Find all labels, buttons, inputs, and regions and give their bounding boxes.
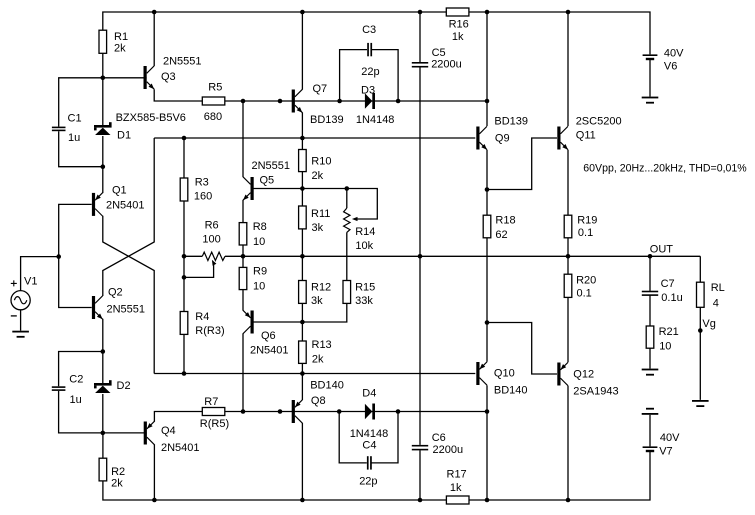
resistor R17 — [446, 496, 469, 504]
svg-text:BD140: BD140 — [310, 379, 344, 391]
junction dots VAS base line — [241, 99, 246, 104]
resistor R7 — [202, 408, 225, 416]
svg-text:3k: 3k — [311, 295, 323, 307]
wire R7 to Q8 base line — [225, 411, 487, 413]
wire R10 to R11 node — [301, 172, 303, 206]
svg-text:Q12: Q12 — [573, 369, 594, 381]
junction dots out rail — [182, 254, 187, 259]
svg-text:Q9: Q9 — [495, 132, 510, 144]
wire bias rail y138 — [154, 137, 475, 139]
wire R18 to Q10 emitter — [486, 238, 488, 362]
capacitor C2 — [52, 386, 66, 388]
junction dot Q3 base node — [101, 76, 106, 81]
wire Q5 base — [253, 188, 302, 190]
wire bottom rail — [103, 451, 650, 500]
resistor R6 potentiometer — [202, 252, 225, 260]
transistor Q5 — [251, 177, 254, 200]
svg-text:2k: 2k — [312, 354, 324, 366]
svg-text:Q10: Q10 — [494, 368, 515, 380]
svg-text:V1: V1 — [24, 276, 37, 288]
wire Q1 collector cross to right — [103, 216, 154, 374]
svg-text:10k: 10k — [355, 240, 373, 252]
svg-text:2k: 2k — [312, 170, 324, 182]
wire R14 wiper bracket — [347, 189, 378, 220]
transistor Q12 — [557, 363, 560, 386]
zener diode D1 — [94, 125, 112, 128]
svg-text:2N5551: 2N5551 — [252, 160, 291, 172]
wire R11 to out rail — [301, 229, 303, 281]
svg-text:2N5551: 2N5551 — [107, 304, 146, 316]
wire Q9 emitter to Q11 base — [487, 138, 557, 190]
wire Q4 collector to bottom rail — [153, 444, 155, 500]
wire Q11 emitter to R19 — [567, 150, 569, 215]
svg-text:R(R5): R(R5) — [200, 418, 229, 430]
svg-text:R5: R5 — [208, 82, 222, 94]
wire R8 R9 junction — [242, 245, 244, 267]
resistor R12 — [299, 281, 307, 304]
svg-text:D4: D4 — [362, 388, 376, 400]
junction dot D2 node — [101, 349, 106, 354]
wire Q4 base node to R2 — [103, 433, 147, 458]
svg-text:R17: R17 — [447, 469, 467, 481]
wire C1 branch top — [59, 78, 103, 127]
wire R20 to Q12 emitter — [567, 297, 569, 362]
svg-text:BD140: BD140 — [494, 385, 528, 397]
svg-text:22p: 22p — [359, 476, 377, 488]
resistor R20 — [564, 274, 572, 297]
svg-text:2N5551: 2N5551 — [163, 55, 202, 67]
svg-text:Q1: Q1 — [112, 185, 127, 197]
transistor Q7 — [292, 90, 295, 113]
svg-text:R20: R20 — [576, 274, 596, 286]
wire R3 R4 column — [183, 138, 185, 374]
svg-text:40V: 40V — [660, 432, 680, 444]
svg-text:R9: R9 — [253, 266, 267, 278]
svg-text:2N5401: 2N5401 — [106, 200, 145, 212]
svg-text:R(R3): R(R3) — [195, 325, 224, 337]
svg-text:22p: 22p — [361, 66, 379, 78]
svg-text:R11: R11 — [311, 208, 330, 220]
wire R12 to R13 node — [301, 303, 303, 341]
junction dot R6 wiper node — [182, 275, 187, 280]
svg-text:C7: C7 — [661, 278, 675, 290]
wire Q2 collector cross from right — [103, 138, 154, 296]
wire output rail H5 y373.5 — [154, 373, 475, 375]
wire Q6 base — [253, 321, 302, 323]
svg-text:2200u: 2200u — [431, 59, 462, 71]
transistor Q8 — [292, 400, 295, 423]
svg-text:60Vpp, 20Hz...20kHz, THD=0,01%: 60Vpp, 20Hz...20kHz, THD=0,01% — [583, 162, 747, 174]
svg-text:R7: R7 — [204, 396, 218, 408]
svg-text:C4: C4 — [362, 440, 376, 452]
svg-text:R18: R18 — [495, 214, 515, 226]
transistor Q3 — [144, 66, 147, 89]
svg-text:R16: R16 — [449, 18, 469, 30]
svg-text:2SC5200: 2SC5200 — [576, 116, 622, 128]
resistor R9 — [239, 267, 247, 289]
svg-text:R3: R3 — [195, 176, 209, 188]
transistor Q11 — [557, 127, 560, 150]
wire C4 bracket — [339, 412, 398, 463]
svg-text:V6: V6 — [664, 60, 677, 72]
svg-text:C3: C3 — [362, 24, 376, 36]
svg-text:0.1: 0.1 — [577, 287, 592, 299]
capacitor C6 — [412, 445, 428, 447]
svg-text:2200u: 2200u — [433, 444, 464, 456]
svg-text:1N4148: 1N4148 — [350, 428, 389, 440]
wire Q11 collector to top rail — [567, 12, 569, 126]
svg-text:0.1u: 0.1u — [661, 292, 682, 304]
svg-text:1N4148: 1N4148 — [356, 114, 395, 126]
resistor R2 — [99, 458, 107, 481]
wire Q10 collector to bottom rail — [486, 385, 488, 500]
battery V6 40V — [643, 54, 658, 56]
svg-text:160: 160 — [194, 191, 212, 203]
svg-text:4: 4 — [713, 297, 719, 309]
svg-text:100: 100 — [202, 234, 220, 246]
junction dot R12 node — [300, 320, 305, 325]
wire V1 branch — [21, 257, 59, 291]
svg-text:D2: D2 — [117, 380, 131, 392]
svg-text:R6: R6 — [205, 220, 219, 232]
svg-text:40V: 40V — [664, 48, 684, 60]
wire R19 to out rail — [567, 238, 569, 256]
svg-text:R12: R12 — [311, 281, 331, 293]
svg-text:V7: V7 — [659, 446, 672, 458]
wire C2 branch — [59, 352, 103, 433]
wire Q9 collector — [486, 12, 488, 126]
resistor R19 — [564, 215, 572, 238]
junction dots Q8 base line — [241, 409, 246, 414]
svg-text:1k: 1k — [450, 482, 462, 494]
transistor Q4 — [144, 422, 147, 445]
source V1 sine generator — [11, 291, 30, 310]
wire Q6 collector to R7 line — [242, 333, 244, 411]
transistor Q2 — [92, 296, 95, 319]
wire R5 to VAS base line — [225, 100, 487, 102]
wire Q1 base to Q2 base via V1 node — [59, 204, 92, 307]
diode D4 — [365, 404, 372, 419]
svg-text:62: 62 — [495, 229, 507, 241]
resistor R13 — [299, 341, 307, 363]
wire R9 to Q6 emitter — [242, 290, 244, 311]
capacitor C3 — [367, 43, 369, 56]
svg-text:33k: 33k — [355, 295, 373, 307]
ground RL Vg — [692, 400, 709, 402]
transistor Q6 — [251, 311, 254, 334]
wire V1 to ground — [20, 310, 22, 331]
svg-text:10: 10 — [253, 280, 265, 292]
wire Q8 emitter — [301, 374, 303, 401]
svg-text:C2: C2 — [69, 373, 83, 385]
svg-text:2N5401: 2N5401 — [250, 345, 289, 357]
svg-text:R14: R14 — [355, 226, 375, 238]
wire R1 bottom to Q3 base node — [103, 53, 147, 78]
resistor R18 — [483, 215, 491, 238]
transistor Q10 — [476, 362, 479, 385]
wire Q3 collector to top rail — [153, 12, 155, 66]
wire Q8 collector to bottom rail — [301, 423, 303, 500]
ground V1 — [12, 331, 29, 333]
junction dot Q4 base node — [101, 431, 106, 436]
wire Q1 emitter — [102, 167, 104, 193]
diode D3 — [365, 93, 372, 108]
svg-text:C1: C1 — [68, 113, 82, 125]
svg-text:Q5: Q5 — [260, 174, 275, 186]
capacitor C7 — [642, 291, 658, 293]
svg-text:BD139: BD139 — [310, 114, 344, 126]
svg-text:C5: C5 — [432, 47, 446, 59]
svg-text:BD139: BD139 — [494, 115, 528, 127]
junction dot V1 node — [56, 254, 61, 259]
svg-text:680: 680 — [204, 111, 222, 123]
svg-text:OUT: OUT — [650, 243, 674, 255]
svg-text:R13: R13 — [312, 339, 332, 351]
svg-text:C6: C6 — [432, 432, 446, 444]
svg-text:2k: 2k — [111, 478, 123, 490]
svg-text:D3: D3 — [361, 85, 375, 97]
svg-text:Vg: Vg — [702, 318, 715, 330]
ground R21 — [642, 369, 659, 371]
wire Q2 emitter to D2 node — [102, 319, 104, 352]
svg-text:R2: R2 — [111, 466, 125, 478]
svg-text:RL: RL — [711, 282, 725, 294]
resistor R5 — [202, 97, 225, 105]
capacitor C1 — [52, 127, 66, 129]
resistor R11 — [299, 206, 307, 229]
svg-text:R1: R1 — [114, 31, 128, 43]
wire Q12 collector to bottom rail — [567, 386, 569, 500]
wire C1 bottom to D1 node — [59, 131, 103, 167]
wire Q5 collector column — [242, 101, 244, 177]
svg-text:Q4: Q4 — [161, 425, 176, 437]
wire top +40V rail — [103, 12, 650, 54]
resistor R3 — [180, 178, 188, 201]
resistor R15 — [343, 281, 351, 304]
junction dot Q9 emitter — [485, 187, 490, 192]
svg-text:0.1: 0.1 — [578, 227, 593, 239]
wire Q7 emitter to R10 — [301, 112, 303, 149]
capacitor C5 — [412, 62, 428, 64]
svg-text:Q2: Q2 — [108, 287, 123, 299]
wire R6 wiper bracket — [184, 264, 214, 278]
junction dots bias rail — [182, 136, 187, 141]
svg-text:R15: R15 — [355, 281, 375, 293]
svg-text:D1: D1 — [117, 130, 131, 142]
wire R15 bottom corner — [302, 303, 346, 322]
node Vg dot — [698, 328, 703, 333]
wire out rail to R20 — [567, 256, 569, 274]
svg-text:1u: 1u — [70, 394, 82, 406]
wire V7 branch — [649, 415, 651, 447]
wire Q9 emitter to R18 — [486, 150, 488, 215]
wire pot R14 branch — [302, 189, 346, 281]
resistor R16 — [446, 8, 469, 16]
wire Q7 collector to top rail — [301, 12, 303, 90]
wire Q3 emitter to R5 line — [154, 89, 202, 101]
resistor R1 — [99, 30, 107, 53]
wire Q10 emitter to Q12 base — [487, 323, 557, 375]
junction dots bottom rail — [152, 498, 157, 503]
wire V6 battery column — [649, 59, 651, 97]
svg-text:Q11: Q11 — [576, 130, 596, 142]
wire C5 column — [419, 12, 421, 256]
svg-text:2k: 2k — [114, 43, 126, 55]
wire RL branch — [699, 256, 701, 400]
junction dots R10 node — [300, 186, 305, 191]
junction dot D1 node — [101, 164, 106, 169]
resistor RL — [697, 282, 705, 307]
wire Q5 emitter to R8 — [242, 200, 244, 223]
resistor R21 — [646, 326, 654, 348]
ground above V7 inverted — [646, 408, 654, 410]
wire feedback rail with R6 — [184, 255, 700, 257]
svg-text:2N5401: 2N5401 — [161, 442, 200, 454]
transistor Q1 — [92, 193, 95, 216]
svg-text:Q3: Q3 — [161, 71, 176, 83]
svg-text:Q7: Q7 — [313, 83, 328, 95]
svg-text:BZX585-B5V6: BZX585-B5V6 — [116, 112, 186, 124]
svg-text:R21: R21 — [659, 326, 679, 338]
wire D2 column — [102, 352, 104, 433]
wire C3 bracket — [340, 50, 399, 101]
resistor R14 potentiometer — [344, 208, 350, 232]
ground V6 — [642, 97, 659, 99]
resistor R10 — [299, 150, 307, 172]
resistor R4 — [180, 312, 188, 335]
svg-text:Q8: Q8 — [311, 395, 326, 407]
svg-text:10: 10 — [253, 236, 265, 248]
wire C7 branch — [649, 256, 651, 368]
resistor R8 — [239, 223, 247, 245]
svg-text:3k: 3k — [312, 222, 324, 234]
wire Q4 emitter to R7 line — [154, 412, 202, 422]
battery V7 40V — [643, 446, 658, 448]
zener diode D2 — [94, 383, 112, 386]
transistor Q9 — [476, 127, 479, 150]
wire C6 column — [419, 256, 421, 500]
wire D1 column — [102, 78, 104, 167]
svg-text:10: 10 — [659, 340, 671, 352]
junction dots top rail — [152, 10, 157, 15]
junction dot Q10 emitter — [485, 320, 490, 325]
svg-text:1k: 1k — [452, 31, 464, 43]
svg-text:R4: R4 — [195, 311, 209, 323]
svg-text:1u: 1u — [68, 132, 80, 144]
junction dots H5 rail — [182, 371, 187, 376]
capacitor C4 — [367, 456, 369, 469]
svg-text:R8: R8 — [253, 221, 267, 233]
svg-text:R19: R19 — [577, 215, 597, 227]
svg-text:2SA1943: 2SA1943 — [573, 386, 618, 398]
svg-text:R10: R10 — [311, 155, 331, 167]
svg-text:Q6: Q6 — [261, 330, 276, 342]
wire R13 to H5 — [301, 363, 303, 373]
